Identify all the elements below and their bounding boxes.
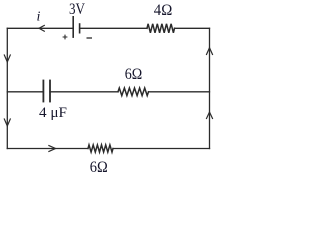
svg-text:4Ω: 4Ω	[154, 2, 173, 19]
capacitor C1 plate right	[49, 81, 51, 102]
wire top-left segment	[7, 27, 73, 29]
current arrow left upper (down-pointing)	[4, 55, 10, 62]
wire middle left segment	[7, 91, 43, 93]
battery V1 plate long	[72, 17, 74, 37]
battery V1 plate short	[79, 24, 81, 33]
wire bottom segment right	[113, 148, 210, 150]
resistor R3 6ohm	[88, 145, 113, 152]
wire bottom segment left	[7, 148, 88, 150]
svg-text:6Ω: 6Ω	[125, 66, 143, 83]
svg-text:i: i	[37, 10, 41, 25]
svg-text:4 μF: 4 μF	[39, 105, 67, 121]
wire middle right segment	[149, 91, 210, 93]
current arrow top (left-pointing)	[39, 25, 44, 31]
wire left vertical	[6, 28, 8, 148]
capacitor C1 plate left	[42, 81, 44, 102]
wire middle segment to resistor	[50, 91, 118, 93]
resistor R2 6ohm	[118, 88, 149, 96]
svg-text:3V: 3V	[69, 1, 85, 18]
current arrow right lower (up-pointing)	[207, 112, 213, 119]
current arrow right upper (up-pointing)	[207, 48, 213, 55]
wire top-right segment	[80, 27, 147, 29]
svg-text:6Ω: 6Ω	[90, 159, 108, 173]
current arrow bottom (right-pointing)	[49, 146, 56, 152]
label minus	[87, 37, 93, 39]
current arrow left lower (down-pointing)	[4, 119, 10, 126]
resistor R1 4ohm	[147, 24, 175, 33]
label plus	[63, 35, 68, 40]
wire top far-right segment	[175, 27, 210, 29]
wire right vertical	[209, 28, 211, 148]
